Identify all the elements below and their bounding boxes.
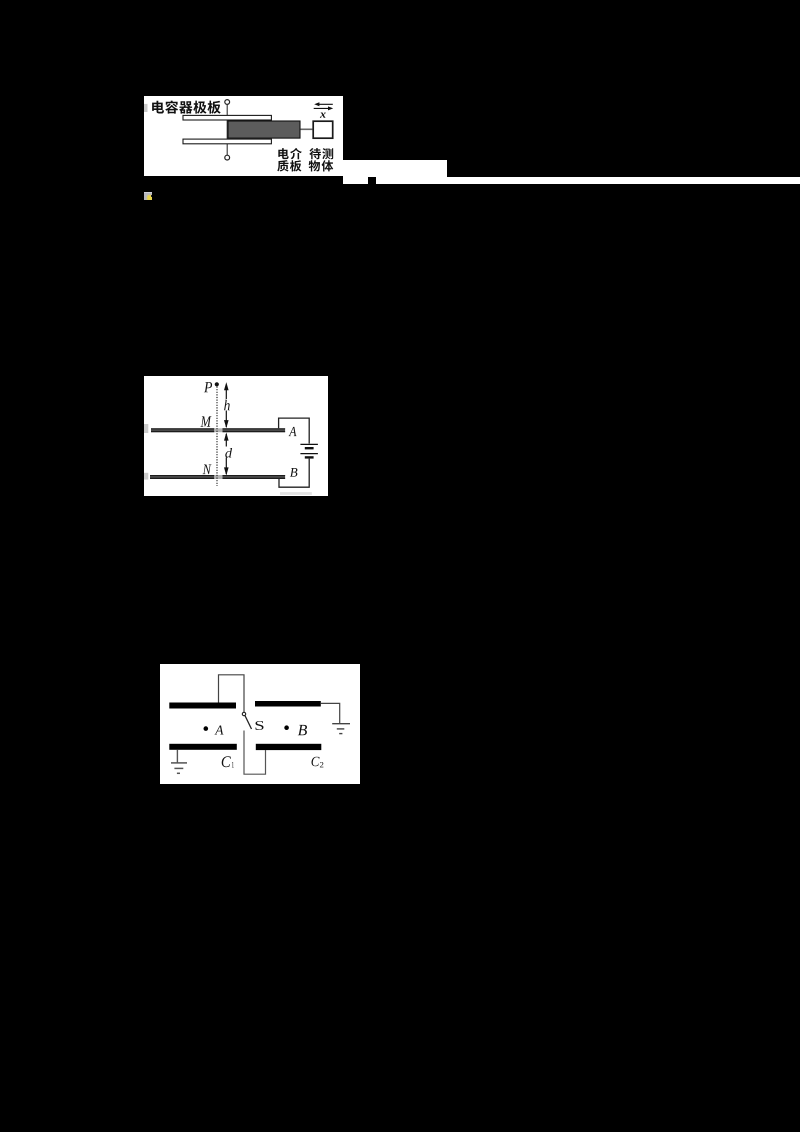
- grey nub left edge upper: [144, 424, 148, 433]
- battery cell short thick 1: [305, 447, 314, 449]
- object square (待测物体): [313, 121, 333, 138]
- terminal node top circle: [225, 100, 230, 105]
- black notch in strip: [368, 177, 376, 184]
- terminal A label: [289, 427, 297, 436]
- plate N left segment: [150, 475, 214, 479]
- ground left stem: [176, 750, 178, 763]
- terminal node bottom circle: [225, 155, 230, 160]
- double arrow right: [314, 107, 331, 109]
- white strip B long line: [447, 177, 800, 184]
- d dimension arrow: [225, 434, 227, 474]
- capacitor C1 top plate: [169, 703, 236, 709]
- plate N label: [203, 464, 212, 474]
- dotted center line: [216, 387, 218, 487]
- plate N right segment: [223, 475, 286, 479]
- x displacement label: [320, 113, 326, 118]
- battery cell long line 1: [300, 443, 318, 445]
- plate M label: [200, 416, 211, 426]
- C1 label: [222, 756, 231, 767]
- plate M left segment: [151, 428, 214, 432]
- wire C2 top to ground: [321, 703, 340, 723]
- plate N gap (light): [214, 475, 222, 479]
- wire vertical through plates: [226, 104, 228, 155]
- point B label: [298, 725, 307, 735]
- wire A to battery: [279, 418, 310, 443]
- figure 1: capacitor displacement sensor: [144, 96, 343, 176]
- battery cell short thick 2: [305, 456, 314, 458]
- grey strip bottom: [280, 492, 312, 495]
- switch S pivot circle: [242, 712, 245, 715]
- label: capacitor plates text 电容器极板: [152, 101, 164, 114]
- small icon grey/yellow: [144, 192, 152, 200]
- capacitor C2 top plate: [255, 701, 321, 707]
- figure 3: capacitors C1 C2 with switch S: [160, 664, 360, 784]
- label: measured object 待测物体: [309, 148, 320, 159]
- point A dot: [204, 726, 209, 731]
- ground right bars: [332, 723, 350, 725]
- h dimension arrow: [225, 385, 227, 427]
- C2 label: [311, 757, 319, 767]
- grey nub left edge lower: [144, 473, 148, 480]
- wire battery to B: [279, 459, 309, 488]
- figure 2: parallel plates M N with battery: [144, 376, 328, 496]
- capacitor top plate: [183, 115, 271, 120]
- double arrow left: [317, 103, 333, 105]
- capacitor C1 bottom plate: [169, 744, 237, 750]
- d label: [225, 448, 232, 458]
- white strip A right of figure 1: [343, 160, 447, 184]
- point A label: [215, 725, 224, 734]
- plate M right segment: [223, 428, 286, 432]
- wire C1 top to switch: [219, 675, 245, 713]
- connector rod: [301, 128, 313, 130]
- ground left bars: [171, 762, 187, 764]
- grey nub left edge: [144, 104, 148, 112]
- capacitor bottom plate: [183, 139, 271, 144]
- wire switch to C2 bottom: [244, 731, 266, 775]
- point P dot: [215, 382, 219, 386]
- point B dot: [284, 725, 289, 730]
- terminal B label: [290, 468, 298, 477]
- switch S blade: [245, 716, 252, 729]
- node P label: [204, 382, 212, 392]
- dielectric slab (dark): [228, 121, 300, 138]
- h label: [224, 400, 230, 411]
- label: dielectric 电介质板: [278, 148, 288, 159]
- battery cell long line 2: [300, 453, 318, 455]
- plate M gap (light): [214, 428, 222, 432]
- switch S label: [256, 721, 264, 730]
- capacitor C2 bottom plate: [256, 744, 321, 750]
